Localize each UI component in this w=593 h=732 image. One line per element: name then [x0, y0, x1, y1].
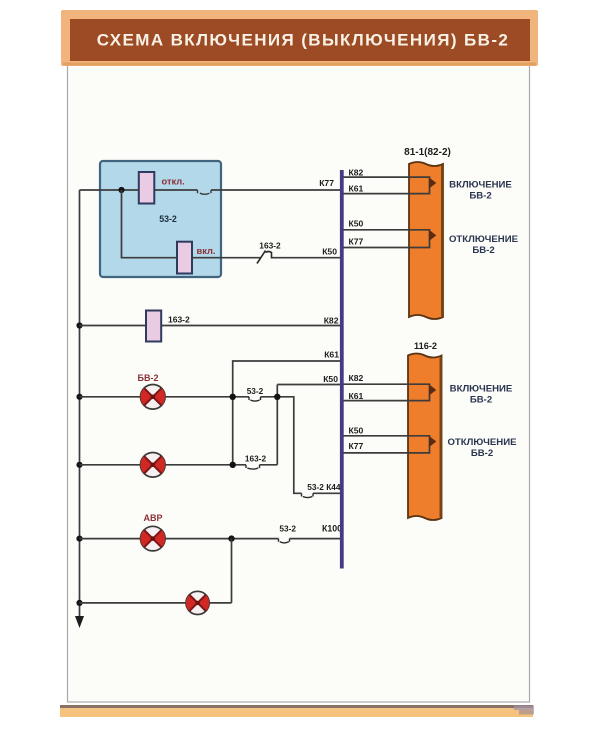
wire: left vertical bus — [79, 190, 81, 616]
connector pin pair1 block1 — [430, 178, 436, 187]
svg-text:К100: К100 — [322, 523, 342, 533]
contact 53-2 symbol on row4 — [249, 397, 261, 401]
svg-text:К50: К50 — [322, 247, 337, 257]
wire row6 (K100) — [80, 538, 341, 540]
svg-text:К77: К77 — [319, 178, 334, 188]
node row4 left — [76, 394, 82, 400]
relay box 53-2 (light blue) — [100, 161, 221, 277]
lamp L2 — [140, 453, 165, 478]
svg-text:откл.: откл. — [162, 177, 185, 187]
lamp L3 — [140, 526, 165, 551]
orange block 116-2 — [408, 354, 442, 521]
contact break in row1 (inside box) — [198, 190, 212, 194]
svg-text:163-2: 163-2 — [245, 454, 267, 464]
contact 163-2 symbol on row2 — [257, 251, 272, 264]
lamp L1 — [140, 385, 165, 410]
bottom rail dark line — [60, 705, 533, 708]
node row7 left — [76, 600, 82, 606]
branch K50 from node B — [277, 385, 340, 465]
svg-text:53-2: 53-2 — [159, 214, 177, 224]
svg-text:АВР: АВР — [143, 513, 162, 523]
wires right of bus: pair 1 into block 2 — [344, 384, 430, 400]
contact 53-2 symbol on row6 — [279, 539, 290, 543]
wire to вкл contact — [122, 190, 178, 258]
header brown bar — [70, 19, 530, 61]
poster white panel — [68, 62, 530, 702]
orange block 81-1(82-2) — [409, 162, 443, 319]
svg-text:ВКЛЮЧЕНИЕ: ВКЛЮЧЕНИЕ — [450, 384, 513, 395]
wires right of bus: pair 2 into block 1 — [344, 230, 430, 248]
svg-text:БВ-2: БВ-2 — [138, 373, 159, 383]
ground arrow at bottom of left wire — [75, 616, 84, 628]
header tan frame — [61, 10, 538, 66]
connector pin pair1 block2 — [430, 385, 436, 394]
node row5 left — [76, 462, 82, 468]
svg-text:ОТКЛЮЧЕНИЕ: ОТКЛЮЧЕНИЕ — [447, 437, 517, 448]
wires right of bus: pair 2 into block 2 — [344, 436, 430, 453]
svg-text:К77: К77 — [349, 441, 364, 451]
svg-text:53-2: 53-2 — [279, 523, 296, 533]
svg-text:БВ-2: БВ-2 — [469, 191, 491, 202]
svg-text:ВКЛЮЧЕНИЕ: ВКЛЮЧЕНИЕ — [449, 180, 512, 191]
connector pin pair2 block2 — [430, 437, 436, 446]
node row3 — [76, 322, 82, 328]
node A — [230, 394, 236, 400]
contact 163-2 symbol on row5 — [246, 465, 260, 469]
node B — [274, 394, 280, 400]
bottom-right signature smudge — [514, 706, 534, 715]
node row6 mid — [228, 535, 234, 541]
contact 53-2 K44 symbol — [302, 493, 314, 497]
bottom rail orange strip — [60, 708, 533, 717]
node: junction in box — [118, 187, 124, 193]
wire row5 — [80, 464, 278, 466]
contact откл. (lilac) — [139, 172, 155, 204]
svg-text:К82: К82 — [324, 316, 339, 326]
wire row6 to row7 vertical — [231, 539, 233, 603]
svg-text:К61: К61 — [349, 184, 364, 194]
wire row2 (K50) — [192, 257, 340, 259]
wire row3 (K82) — [80, 325, 341, 327]
svg-text:К82: К82 — [349, 168, 364, 178]
svg-text:БВ-2: БВ-2 — [472, 245, 494, 256]
node row6 left — [76, 536, 82, 542]
svg-text:163-2: 163-2 — [259, 241, 281, 251]
svg-text:К50: К50 — [349, 219, 364, 229]
svg-text:СХЕМА ВКЛЮЧЕНИЯ (ВЫКЛЮЧЕНИЯ) Б: СХЕМА ВКЛЮЧЕНИЯ (ВЫКЛЮЧЕНИЯ) БВ-2 — [97, 31, 509, 50]
lamp L4 — [186, 591, 209, 614]
svg-text:ОТКЛЮЧЕНИЕ: ОТКЛЮЧЕНИЕ — [449, 234, 519, 245]
main vertical bus — [340, 170, 344, 569]
svg-text:81-1(82-2): 81-1(82-2) — [404, 147, 451, 158]
connector pin pair2 block1 — [430, 231, 436, 240]
svg-text:116-2: 116-2 — [414, 341, 437, 351]
contact 163-2 (lilac) — [146, 311, 161, 342]
svg-text:К50: К50 — [323, 374, 338, 384]
svg-text:вкл.: вкл. — [197, 246, 216, 256]
svg-text:К61: К61 — [324, 350, 339, 360]
branch down from node A — [232, 397, 234, 465]
svg-text:53-2: 53-2 — [247, 386, 264, 396]
svg-text:БВ-2: БВ-2 — [470, 395, 492, 406]
svg-text:К61: К61 — [349, 391, 364, 401]
node row5 mid — [230, 462, 236, 468]
wire row7 — [80, 602, 232, 604]
svg-text:БВ-2: БВ-2 — [471, 448, 493, 459]
branch K61 from node A — [233, 361, 340, 397]
svg-text:К50: К50 — [349, 426, 364, 436]
svg-text:53-2 К44: 53-2 К44 — [307, 482, 341, 492]
wires right of bus: pair 1 into block 1 — [344, 177, 430, 194]
wire row1 (K77) — [80, 189, 341, 191]
svg-text:К82: К82 — [349, 373, 364, 383]
wire row4 — [80, 397, 341, 494]
svg-text:К77: К77 — [349, 237, 364, 247]
svg-text:163-2: 163-2 — [168, 314, 190, 324]
contact вкл. (lilac) — [177, 242, 192, 274]
